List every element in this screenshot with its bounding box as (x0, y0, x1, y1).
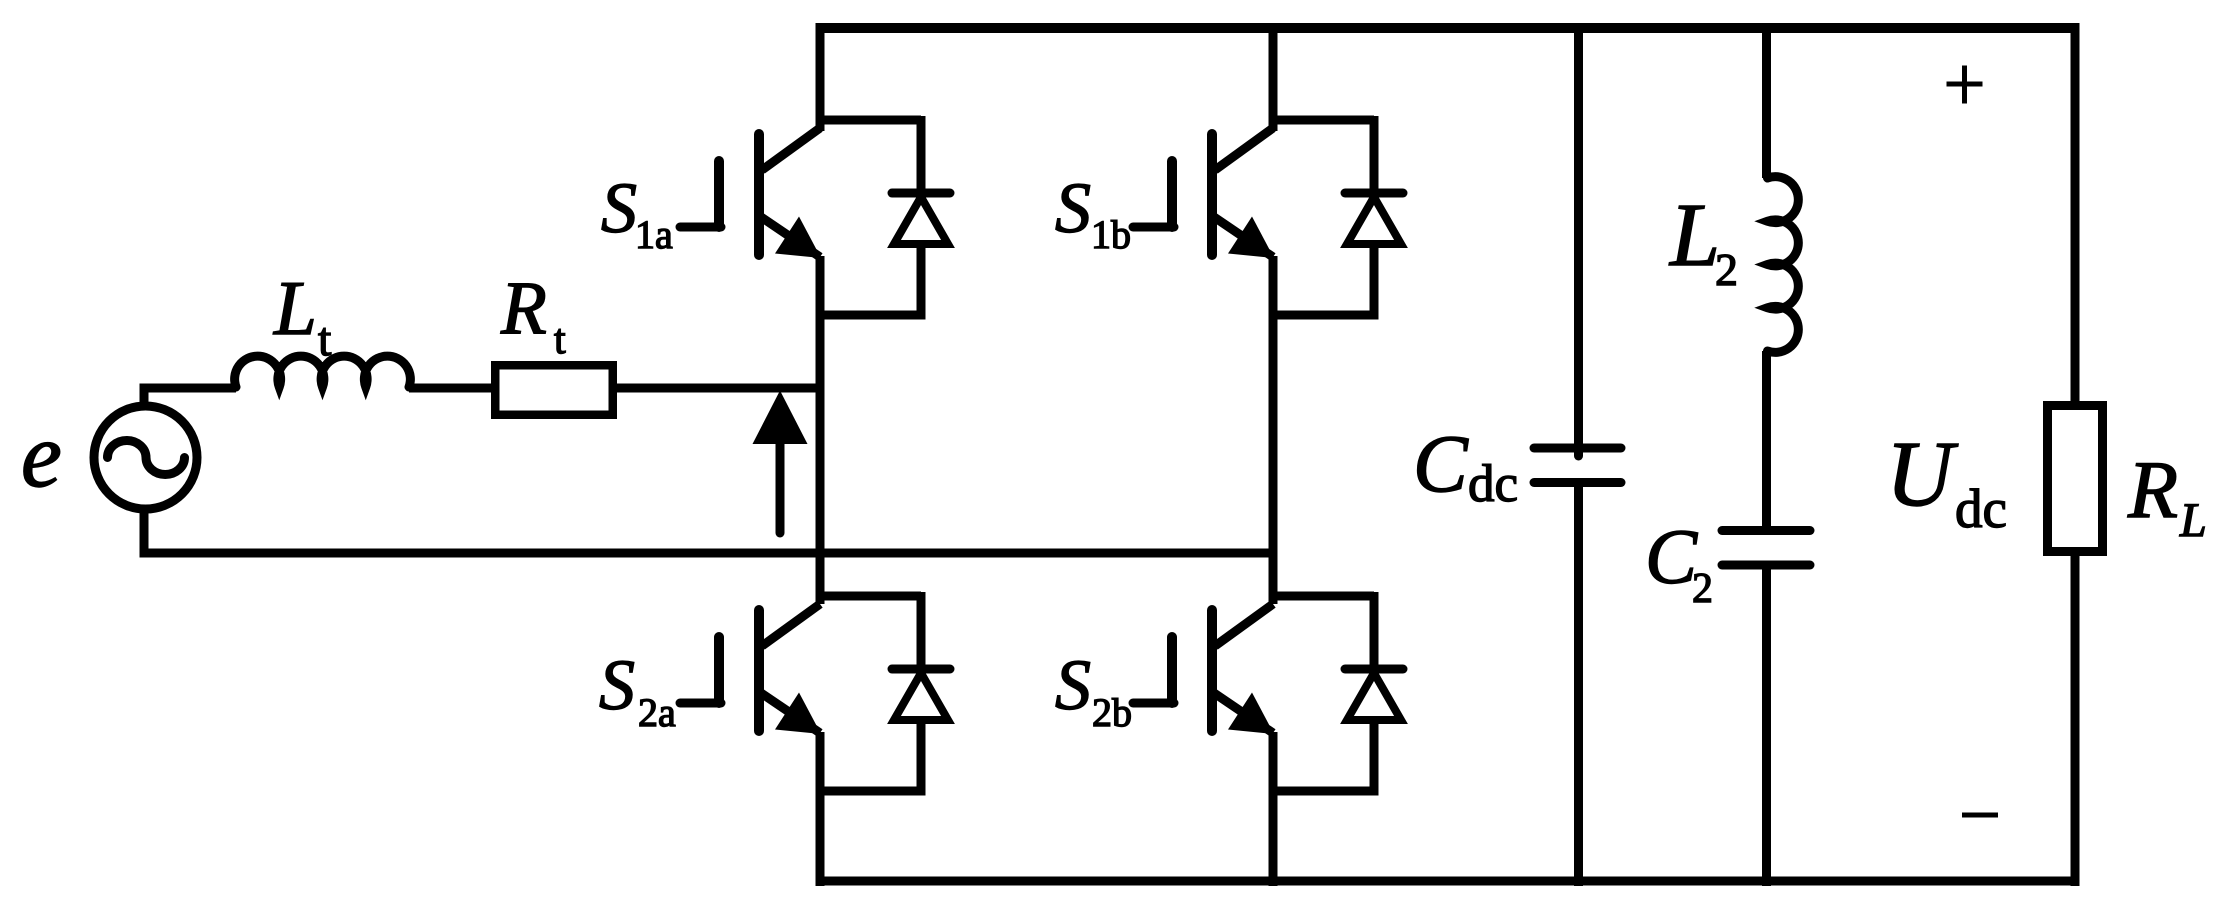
diode D1b (antiparallel) (1345, 116, 1403, 320)
svg-text:C: C (1645, 513, 1698, 600)
L2C2 branch wire lower (1762, 565, 1771, 886)
leg b middle (1269, 256, 1278, 604)
leg a upper (816, 23, 825, 131)
transistor S2b (IGBT) (1133, 596, 1374, 791)
svg-text:dc: dc (1955, 478, 2007, 539)
minus sign (1962, 813, 1998, 818)
leg a lower (816, 732, 825, 886)
transistor S1a (IGBT) (680, 120, 921, 315)
svg-text:dc: dc (1468, 455, 1518, 513)
svg-text:S: S (601, 168, 637, 248)
diode D1a (antiparallel) (892, 116, 950, 320)
dc-link branch wire lower (1574, 483, 1583, 887)
ac source e (94, 406, 197, 509)
plus sign (1947, 66, 1983, 104)
wire Lt to Rt (409, 384, 495, 393)
svg-text:L: L (1668, 186, 1720, 285)
capacitor C2 (1722, 531, 1810, 566)
load branch wire lower (2071, 551, 2080, 886)
svg-text:2: 2 (1692, 566, 1713, 612)
resistor RL (2048, 406, 2103, 552)
capacitor Cdc (1534, 448, 1621, 483)
svg-text:S: S (1055, 168, 1091, 248)
svg-text:2: 2 (1715, 244, 1738, 295)
svg-text:R: R (2127, 444, 2178, 535)
wire source bottom (144, 509, 1273, 553)
current arrow (753, 391, 808, 534)
leg b lower (1269, 732, 1278, 886)
svg-text:t: t (318, 313, 332, 366)
svg-text:e: e (21, 404, 62, 506)
wire Rt to bridge node (613, 384, 824, 393)
bottom rail (818, 877, 2080, 886)
resistor Rt (495, 365, 613, 415)
L2C2 branch wire upper (1762, 23, 1771, 178)
inductor L2 (1768, 177, 1799, 353)
leg b upper (1269, 23, 1278, 131)
diode D2b (antiparallel) (1345, 592, 1403, 796)
svg-text:U: U (1886, 423, 1959, 526)
diode D2a (antiparallel) (892, 592, 950, 796)
svg-text:2b: 2b (1092, 690, 1132, 735)
svg-text:2a: 2a (638, 690, 676, 735)
transistor S1b (IGBT) (1133, 120, 1374, 315)
svg-text:1b: 1b (1091, 212, 1131, 257)
dc-link branch wire upper (1574, 23, 1583, 448)
svg-text:L: L (2179, 494, 2207, 547)
svg-text:1a: 1a (635, 212, 673, 257)
leg a middle (816, 256, 825, 604)
svg-text:t: t (554, 317, 566, 363)
svg-text:R: R (500, 267, 547, 350)
svg-text:C: C (1413, 418, 1469, 509)
wire L2 to C2 (1762, 351, 1771, 531)
svg-text:S: S (1055, 645, 1091, 725)
wire source top to inductor (144, 388, 236, 406)
top rail (818, 23, 2080, 33)
transistor S2a (IGBT) (680, 596, 921, 791)
load branch wire upper (2071, 23, 2080, 405)
inductor Lt (235, 356, 411, 387)
svg-text:S: S (599, 645, 635, 725)
svg-text:L: L (273, 265, 317, 351)
